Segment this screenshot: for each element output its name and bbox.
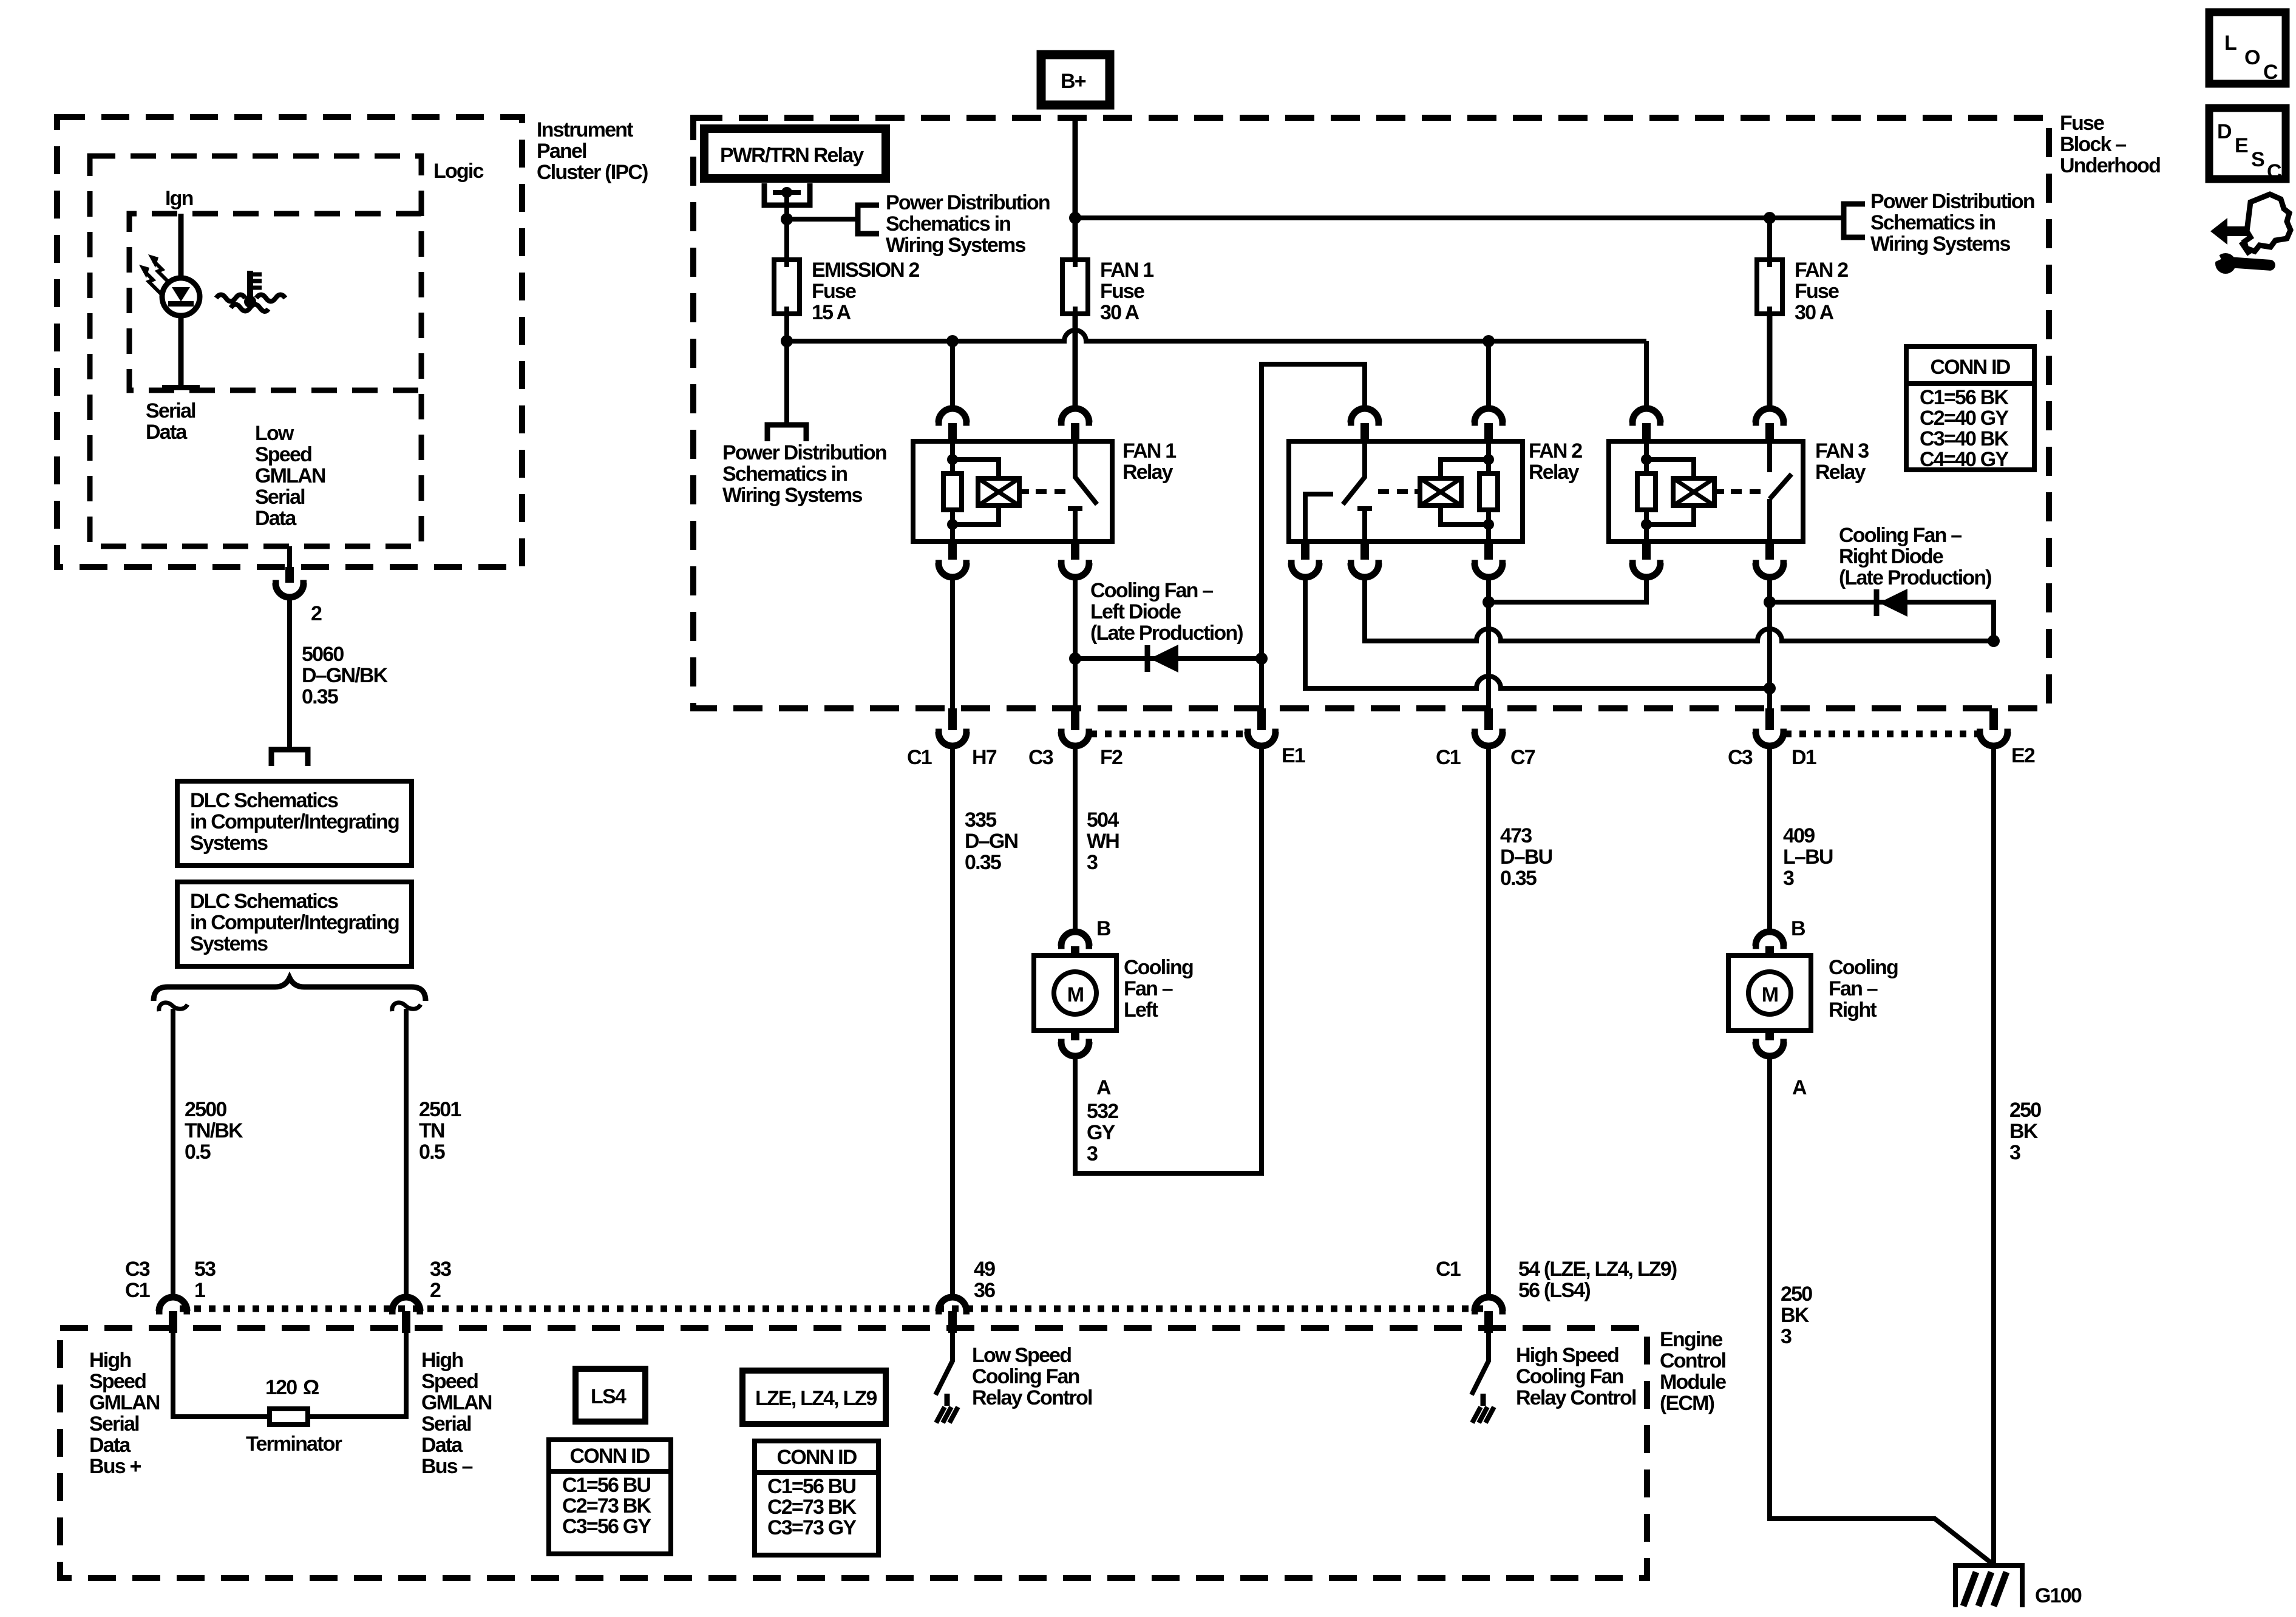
cooling fan left motor M1 bbox=[1034, 955, 1116, 1031]
svg-text:Schematics in: Schematics in bbox=[1870, 211, 1995, 234]
connector E1 at fuse block bbox=[1245, 708, 1279, 746]
svg-text:Cooling Fan: Cooling Fan bbox=[972, 1365, 1079, 1388]
ECM dashed box bbox=[60, 1328, 1647, 1578]
svg-text:250: 250 bbox=[2009, 1099, 2041, 1122]
svg-text:GMLAN: GMLAN bbox=[89, 1391, 160, 1414]
svg-text:Panel: Panel bbox=[537, 140, 586, 163]
svg-text:Power Distribution: Power Distribution bbox=[886, 191, 1050, 214]
relay FAN1 bottom pin switch connector bbox=[1058, 541, 1092, 577]
pin labels C3 D1 bbox=[1728, 746, 1816, 769]
svg-text:C2=73 BK: C2=73 BK bbox=[562, 1494, 652, 1517]
svg-text:Systems: Systems bbox=[190, 832, 268, 855]
Power Distribution label 3 bbox=[1870, 190, 2034, 256]
junction dot bus to FAN1 coil bbox=[946, 335, 959, 347]
pin label B right bbox=[1791, 917, 1805, 940]
svg-text:C1=56 BU: C1=56 BU bbox=[767, 1475, 856, 1498]
pin labels C3 C1 53 1 bbox=[125, 1258, 216, 1302]
junction dot E2 line bbox=[1988, 635, 2000, 647]
svg-text:C3: C3 bbox=[1728, 746, 1753, 769]
wire B+ down bbox=[1073, 118, 1078, 260]
wire bus to FAN2 resistor pin bbox=[1486, 341, 1491, 408]
fuse FAN 2 30A bbox=[1757, 260, 1782, 314]
wire FAN2 pin87a to E2 line bbox=[1365, 577, 1994, 641]
svg-text:D–BU: D–BU bbox=[1500, 846, 1552, 869]
svg-text:Bus –: Bus – bbox=[421, 1455, 472, 1478]
junction dot coil jumper bbox=[1483, 596, 1495, 608]
wire bus- to terminator bbox=[308, 1333, 406, 1417]
LZE LZ4 LZ9 box bbox=[742, 1371, 886, 1424]
svg-text:B+: B+ bbox=[1061, 70, 1086, 93]
wire label 5060 D-GN/BK 0.35 bbox=[302, 643, 389, 708]
pin labels 33 2 bbox=[430, 1258, 451, 1302]
svg-text:D: D bbox=[2217, 120, 2232, 143]
Power Distribution label 2 bbox=[722, 441, 886, 507]
svg-text:Fuse: Fuse bbox=[812, 280, 856, 303]
cooling fan right diode bbox=[1877, 589, 1907, 617]
svg-text:C1: C1 bbox=[1436, 746, 1461, 769]
ECM connector pin 49 bbox=[936, 1297, 970, 1333]
FAN2 coil parallel branch bbox=[1441, 454, 1494, 530]
relay FAN1 bottom pin coil connector bbox=[936, 541, 970, 577]
ECM label bbox=[1660, 1328, 1726, 1415]
svg-text:Schematics in: Schematics in bbox=[722, 463, 847, 486]
FAN3 linkage dashes bbox=[1731, 489, 1761, 494]
svg-text:3: 3 bbox=[1087, 1142, 1098, 1165]
relay FAN3 top pin coil connector bbox=[1629, 408, 1663, 441]
wire FAN1 fuse to relay switch bbox=[1073, 314, 1078, 408]
left diode junction dots bbox=[1069, 653, 1268, 665]
CONN ID table LZE bbox=[755, 1441, 878, 1555]
FAN3 resistor bbox=[1637, 441, 1656, 541]
connector E2 at fuse block bbox=[1977, 708, 2011, 746]
svg-text:36: 36 bbox=[974, 1279, 995, 1302]
service icon wrench bbox=[2209, 242, 2276, 274]
pin label E2 bbox=[2011, 744, 2035, 767]
svg-text:Low Speed: Low Speed bbox=[972, 1344, 1071, 1367]
svg-text:Schematics in: Schematics in bbox=[886, 212, 1010, 236]
svg-text:FAN 1: FAN 1 bbox=[1100, 259, 1153, 282]
svg-text:BK: BK bbox=[2009, 1120, 2039, 1143]
pin label E1 bbox=[1282, 744, 1305, 767]
svg-text:C7: C7 bbox=[1510, 746, 1535, 769]
FAN1 coil parallel branch bbox=[947, 454, 999, 530]
svg-text:2500: 2500 bbox=[185, 1098, 226, 1121]
relay FAN1 box bbox=[913, 441, 1112, 541]
svg-text:Data: Data bbox=[255, 507, 297, 530]
Logic dashed box bbox=[90, 156, 421, 546]
fuse FAN 1 30A bbox=[1062, 260, 1088, 314]
Fuse Block Underhood dashed box bbox=[693, 118, 2049, 708]
relay FAN1 top pin switch connector bbox=[1058, 408, 1092, 441]
wire fuse to bus bbox=[784, 314, 789, 422]
svg-text:PWR/TRN Relay: PWR/TRN Relay bbox=[720, 144, 864, 167]
svg-text:H7: H7 bbox=[972, 746, 997, 769]
low speed relay control switch bbox=[936, 1333, 953, 1395]
svg-text:C3: C3 bbox=[1028, 746, 1053, 769]
wire H7 to ECM pin 49 bbox=[950, 746, 955, 1298]
ground G100 bbox=[1955, 1565, 2022, 1607]
svg-text:Cooling Fan: Cooling Fan bbox=[1516, 1365, 1623, 1388]
ground at low speed switch bbox=[936, 1394, 958, 1423]
wire to FAN2 fuse bbox=[1767, 218, 1772, 260]
svg-text:0.35: 0.35 bbox=[302, 685, 338, 708]
svg-text:C4=40 GY: C4=40 GY bbox=[1920, 448, 2009, 471]
connector A left motor bbox=[1058, 1031, 1092, 1056]
LOC icon box bbox=[2209, 12, 2286, 84]
svg-text:250: 250 bbox=[1781, 1283, 1812, 1306]
svg-text:Relay Control: Relay Control bbox=[972, 1386, 1092, 1409]
svg-text:High: High bbox=[421, 1349, 463, 1372]
svg-text:D–GN: D–GN bbox=[965, 830, 1018, 853]
FAN3 relay label bbox=[1815, 439, 1869, 484]
svg-text:Block –: Block – bbox=[2060, 133, 2126, 156]
terminal bracket below EMISSION 2 bbox=[767, 425, 806, 441]
wire bus corner to FAN3 coil pin bbox=[1644, 341, 1649, 408]
connector C3 F2 at fuse block bbox=[1058, 708, 1092, 746]
wire label 250 BK 3 E2 bbox=[2009, 1099, 2041, 1164]
svg-text:Low: Low bbox=[255, 422, 294, 445]
svg-text:54 (LZE, LZ4, LZ9): 54 (LZE, LZ4, LZ9) bbox=[1518, 1258, 1677, 1281]
wire label 335 D-GN 0.35 bbox=[965, 808, 1018, 874]
svg-text:Speed: Speed bbox=[89, 1370, 146, 1393]
connector 2 at IPC edge bbox=[273, 567, 307, 597]
svg-text:TN/BK: TN/BK bbox=[185, 1119, 243, 1142]
wire FAN2 pin87 to D1 line bbox=[1305, 577, 1770, 688]
svg-text:1: 1 bbox=[194, 1279, 205, 1302]
svg-text:532: 532 bbox=[1087, 1100, 1118, 1123]
svg-text:Serial: Serial bbox=[255, 486, 305, 509]
wire label 2500 TN/BK 0.5 bbox=[185, 1098, 243, 1164]
svg-text:Engine: Engine bbox=[1660, 1328, 1722, 1351]
svg-text:3: 3 bbox=[1087, 851, 1098, 874]
svg-text:DLC Schematics: DLC Schematics bbox=[190, 890, 338, 913]
wire 5060 D-GN/BK bbox=[287, 597, 292, 747]
svg-text:53: 53 bbox=[194, 1258, 216, 1281]
svg-text:0.35: 0.35 bbox=[1500, 867, 1537, 890]
Low Speed GMLAN Serial Data label bbox=[255, 422, 325, 530]
svg-text:Left Diode: Left Diode bbox=[1090, 600, 1181, 623]
svg-text:Left: Left bbox=[1124, 998, 1158, 1022]
svg-text:15 A: 15 A bbox=[812, 301, 851, 324]
relay FAN2 bottom pin 87 connector bbox=[1288, 541, 1322, 577]
wire B+ junction to right bbox=[1069, 212, 1844, 224]
DLC Schematics box 2 bbox=[177, 882, 412, 966]
svg-text:2501: 2501 bbox=[419, 1098, 461, 1121]
wire F2 to left motor bbox=[1073, 746, 1078, 932]
svg-text:Relay: Relay bbox=[1123, 461, 1173, 484]
pin label 2 bbox=[311, 602, 322, 625]
CONN ID table underhood bbox=[1906, 347, 2034, 471]
FAN 1 fuse label bbox=[1100, 259, 1153, 324]
PWR/TRN Relay bold box bbox=[704, 129, 886, 178]
svg-text:in Computer/Integrating: in Computer/Integrating bbox=[190, 810, 399, 833]
relay FAN3 box bbox=[1609, 441, 1803, 541]
wire FAN3 switch to D1 bbox=[1767, 577, 1772, 708]
svg-text:C1: C1 bbox=[125, 1279, 150, 1302]
relay FAN3 top pin switch connector bbox=[1753, 408, 1787, 441]
svg-text:C1: C1 bbox=[1436, 1258, 1461, 1281]
FAN2 switch bbox=[1305, 441, 1372, 541]
svg-text:5060: 5060 bbox=[302, 643, 344, 666]
high speed relay control switch bbox=[1472, 1333, 1489, 1395]
pin label A left bbox=[1096, 1076, 1111, 1099]
Cooling Fan Right label bbox=[1829, 956, 1898, 1022]
svg-text:D1: D1 bbox=[1792, 746, 1816, 769]
svg-text:49: 49 bbox=[974, 1258, 995, 1281]
cooling fan left diode bbox=[1147, 645, 1178, 673]
wire label 532 GY 3 bbox=[1087, 1100, 1118, 1165]
wire logic box to IPC edge bbox=[287, 546, 292, 567]
svg-text:B: B bbox=[1096, 917, 1111, 940]
cooling fan left diode wire bbox=[1075, 656, 1262, 661]
Logic label bbox=[433, 160, 484, 183]
svg-text:Relay Control: Relay Control bbox=[1516, 1386, 1636, 1409]
G100 label bbox=[2035, 1584, 2082, 1607]
connector B right motor bbox=[1753, 932, 1787, 956]
svg-text:Systems: Systems bbox=[190, 932, 268, 955]
junction dot FAN2 fuse bbox=[1764, 212, 1776, 224]
EMISSION 2 fuse label bbox=[812, 259, 919, 324]
svg-text:0.35: 0.35 bbox=[965, 851, 1001, 874]
svg-text:CONN ID: CONN ID bbox=[777, 1446, 857, 1469]
wire LED to box edge bbox=[178, 316, 184, 388]
service icon hand bbox=[2244, 194, 2291, 251]
svg-text:3: 3 bbox=[1781, 1325, 1792, 1348]
svg-text:Cooling: Cooling bbox=[1829, 956, 1898, 979]
Cooling Fan Right Diode label bbox=[1839, 524, 1991, 589]
svg-text:TN: TN bbox=[419, 1119, 444, 1142]
Power Distribution label 1 bbox=[886, 191, 1050, 257]
E1 riser to FAN2 switch bbox=[1262, 364, 1365, 708]
DLC Schematics box 1 bbox=[177, 781, 412, 866]
wire label 250 BK 3 motor bbox=[1781, 1283, 1812, 1348]
bus wire with hop over FAN1 fuse wire bbox=[787, 330, 1646, 341]
connector B left motor bbox=[1058, 932, 1092, 956]
ECM connector pin 2 bbox=[389, 1297, 423, 1333]
twisted pair curl right bbox=[392, 1003, 421, 1011]
dotted connector line F2 to E1 bbox=[1090, 731, 1246, 737]
svg-text:E2: E2 bbox=[2011, 744, 2035, 767]
svg-text:Module: Module bbox=[1660, 1371, 1726, 1394]
svg-text:Serial: Serial bbox=[146, 399, 195, 422]
High Speed GMLAN Serial Data Bus + label bbox=[89, 1349, 160, 1478]
pin labels C1 C7 bbox=[1436, 746, 1535, 769]
svg-text:Power Distribution: Power Distribution bbox=[1870, 190, 2034, 213]
svg-text:C3=73 GY: C3=73 GY bbox=[767, 1516, 857, 1539]
junction dot D1 line bbox=[1764, 682, 1776, 694]
Terminator label bbox=[246, 1432, 342, 1456]
svg-text:Cooling: Cooling bbox=[1124, 956, 1193, 979]
wire FAN1 switch to F2 bbox=[1073, 577, 1078, 708]
DESC icon box bbox=[2209, 108, 2286, 183]
FAN1 switch bbox=[1068, 441, 1097, 541]
FAN1 coil bbox=[978, 478, 1029, 506]
FAN2 coil bbox=[1415, 478, 1461, 506]
relay FAN2 top pin switch connector bbox=[1348, 408, 1382, 441]
svg-text:(Late Production): (Late Production) bbox=[1090, 622, 1243, 645]
terminal bar at LED box edge bbox=[162, 385, 200, 390]
svg-text:Relay: Relay bbox=[1529, 461, 1580, 484]
service icon arrow bbox=[2210, 218, 2264, 245]
svg-text:3: 3 bbox=[1783, 867, 1794, 890]
svg-text:DLC Schematics: DLC Schematics bbox=[190, 789, 338, 812]
svg-text:FAN 3: FAN 3 bbox=[1815, 439, 1869, 463]
svg-text:2: 2 bbox=[311, 602, 322, 625]
svg-text:Wiring Systems: Wiring Systems bbox=[886, 234, 1025, 257]
power distribution bracket 2 bbox=[1844, 204, 1865, 237]
wire 250 BK right motor to ground bbox=[1770, 1056, 1994, 1565]
svg-text:Fuse: Fuse bbox=[1795, 280, 1839, 303]
Low Speed Cooling Fan Relay Control label bbox=[972, 1344, 1092, 1409]
junction dot PWR/TRN bbox=[781, 187, 792, 219]
brace bbox=[154, 978, 426, 1001]
svg-text:M: M bbox=[1067, 983, 1084, 1006]
svg-text:C2=73 BK: C2=73 BK bbox=[767, 1496, 857, 1519]
relay FAN3 bottom pin switch connector bbox=[1753, 541, 1787, 577]
svg-text:GMLAN: GMLAN bbox=[255, 464, 325, 487]
svg-text:M: M bbox=[1762, 983, 1778, 1006]
svg-text:High: High bbox=[89, 1349, 131, 1372]
svg-text:C: C bbox=[2263, 61, 2278, 84]
svg-text:EMISSION 2: EMISSION 2 bbox=[812, 259, 919, 282]
FAN1 resistor bbox=[943, 441, 962, 541]
Cooling Fan Left Diode label bbox=[1090, 579, 1243, 645]
svg-text:Fan –: Fan – bbox=[1124, 977, 1173, 1000]
power distribution bracket 1 bbox=[858, 205, 879, 234]
svg-text:Right Diode: Right Diode bbox=[1839, 545, 1943, 568]
wire FAN1 coil to H7 bbox=[950, 577, 955, 708]
cooling fan right diode wire bbox=[1770, 602, 1994, 641]
wire to power distribution bracket 1 bbox=[787, 217, 858, 222]
FAN 2 fuse label bbox=[1795, 259, 1848, 324]
svg-text:Logic: Logic bbox=[433, 160, 484, 183]
svg-text:A: A bbox=[1096, 1076, 1111, 1099]
LS4 box bbox=[576, 1369, 645, 1422]
svg-text:GMLAN: GMLAN bbox=[421, 1391, 492, 1414]
svg-text:C1: C1 bbox=[907, 746, 932, 769]
CONN ID table LS4 bbox=[549, 1440, 671, 1554]
svg-text:CONN ID: CONN ID bbox=[570, 1445, 650, 1468]
svg-text:A: A bbox=[1792, 1076, 1807, 1099]
svg-text:in Computer/Integrating: in Computer/Integrating bbox=[190, 911, 399, 934]
svg-text:LS4: LS4 bbox=[591, 1385, 627, 1408]
svg-text:C1=56 BK: C1=56 BK bbox=[1920, 386, 2009, 409]
wire bus to FAN1 coil pin bbox=[950, 341, 955, 408]
svg-text:C3: C3 bbox=[125, 1258, 150, 1281]
svg-text:2: 2 bbox=[430, 1279, 441, 1302]
pin label B left bbox=[1096, 917, 1111, 940]
pin label A right bbox=[1792, 1076, 1807, 1099]
svg-text:F2: F2 bbox=[1100, 746, 1123, 769]
svg-text:WH: WH bbox=[1087, 830, 1119, 853]
wire 2501 bbox=[404, 1009, 409, 1298]
coolant temperature symbol bbox=[216, 271, 285, 311]
wire C7 to ECM pin 54 bbox=[1486, 746, 1491, 1298]
connector C1 C7 at fuse block bbox=[1472, 708, 1506, 746]
pin labels C1 H7 bbox=[907, 746, 997, 769]
pin labels C3 F2 bbox=[1028, 746, 1123, 769]
svg-text:CONN ID: CONN ID bbox=[1931, 356, 2011, 379]
svg-text:Terminator: Terminator bbox=[246, 1432, 342, 1456]
svg-text:FAN 1: FAN 1 bbox=[1123, 439, 1176, 463]
wire 532 GY left motor return to E1 bbox=[1075, 746, 1262, 1173]
Serial Data label bbox=[146, 399, 195, 444]
jumper FAN2 coil to FAN3 coil bbox=[1489, 577, 1646, 602]
ground at high speed switch bbox=[1472, 1394, 1494, 1423]
svg-text:C3=40 BK: C3=40 BK bbox=[1920, 427, 2009, 450]
connector A right motor bbox=[1753, 1031, 1787, 1056]
FAN3 coil parallel branch bbox=[1641, 454, 1694, 530]
IPC label bbox=[537, 118, 648, 184]
svg-text:3: 3 bbox=[2009, 1141, 2020, 1164]
junction dot right diode bbox=[1764, 596, 1776, 608]
wire Ign to LED bbox=[178, 214, 184, 277]
relay FAN2 bottom pin 87a connector bbox=[1348, 541, 1382, 577]
svg-text:30 A: 30 A bbox=[1795, 301, 1834, 324]
svg-text:O: O bbox=[2244, 46, 2260, 69]
wire label 473 D-BU 0.35 bbox=[1500, 824, 1552, 890]
wire 2500 bbox=[171, 1009, 175, 1298]
wire label 2501 TN 0.5 bbox=[419, 1098, 461, 1164]
LED emission arrows bbox=[139, 254, 170, 294]
svg-text:0.5: 0.5 bbox=[185, 1141, 211, 1164]
svg-text:High Speed: High Speed bbox=[1516, 1344, 1618, 1367]
Ign label bbox=[165, 187, 193, 210]
FAN2 linkage dashes bbox=[1378, 489, 1408, 494]
ECM pin labels C1 54 56 bbox=[1436, 1258, 1677, 1302]
relay FAN2 box bbox=[1289, 441, 1523, 541]
svg-text:504: 504 bbox=[1087, 808, 1119, 832]
svg-text:Serial: Serial bbox=[421, 1412, 471, 1436]
connector C3 D1 at fuse block bbox=[1753, 708, 1787, 746]
svg-text:120: 120 bbox=[265, 1376, 297, 1399]
wire bus+ to terminator bbox=[173, 1333, 270, 1417]
svg-text:BK: BK bbox=[1781, 1304, 1810, 1327]
svg-text:Control: Control bbox=[1660, 1349, 1726, 1372]
Fuse Block label bbox=[2060, 112, 2160, 177]
wire FAN2 fuse to FAN3 switch bbox=[1767, 314, 1773, 408]
wire label 504 WH 3 bbox=[1087, 808, 1119, 874]
svg-text:Ign: Ign bbox=[165, 187, 193, 210]
ECM connector dotted line bbox=[180, 1306, 1485, 1312]
High Speed Cooling Fan Relay Control label bbox=[1516, 1344, 1636, 1409]
relay FAN1 top pin coil connector bbox=[936, 408, 970, 441]
svg-text:Fan –: Fan – bbox=[1829, 977, 1878, 1000]
svg-text:C: C bbox=[2267, 160, 2281, 183]
svg-text:FAN 2: FAN 2 bbox=[1529, 439, 1582, 463]
svg-text:Data: Data bbox=[421, 1434, 463, 1457]
wire label 409 L-BU 3 bbox=[1783, 824, 1833, 890]
wire E2 to ground bbox=[1991, 746, 1996, 1565]
svg-text:Power Distribution: Power Distribution bbox=[722, 441, 886, 464]
FAN1 linkage dashes bbox=[1036, 489, 1065, 494]
svg-text:Relay: Relay bbox=[1815, 461, 1866, 484]
terminal bracket above DLC box bbox=[271, 750, 308, 766]
ECM connector pin 1 bbox=[156, 1297, 190, 1333]
svg-text:GY: GY bbox=[1087, 1121, 1116, 1144]
B+ power symbol bbox=[1041, 55, 1110, 105]
svg-text:Underhood: Underhood bbox=[2060, 154, 2160, 177]
FAN2 relay label bbox=[1529, 439, 1582, 484]
relay FAN3 bottom pin coil connector bbox=[1629, 541, 1663, 577]
svg-text:L: L bbox=[2224, 32, 2237, 55]
svg-text:Data: Data bbox=[89, 1434, 131, 1457]
svg-text:Wiring Systems: Wiring Systems bbox=[722, 484, 862, 507]
svg-text:LZE, LZ4, LZ9: LZE, LZ4, LZ9 bbox=[755, 1387, 877, 1410]
svg-text:C3=56 GY: C3=56 GY bbox=[562, 1515, 651, 1538]
svg-text:Instrument: Instrument bbox=[537, 118, 633, 141]
svg-text:(Late Production): (Late Production) bbox=[1839, 566, 1991, 589]
